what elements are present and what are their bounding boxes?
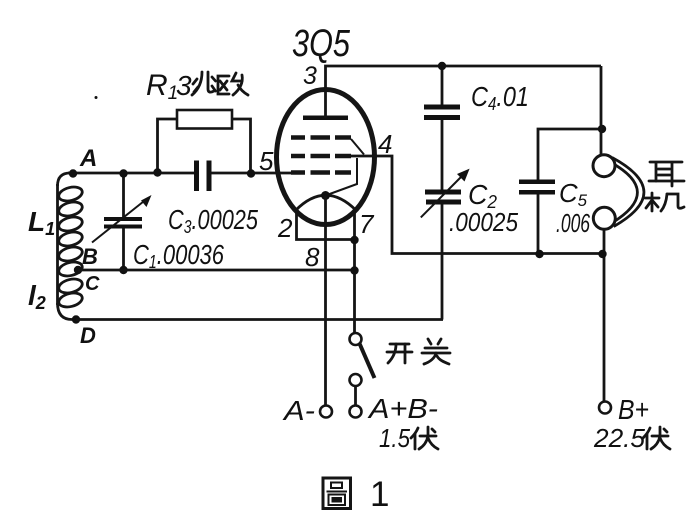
svg-text:A+B-: A+B- [367, 393, 438, 424]
label fu (伏) after 1.5 [411, 427, 438, 449]
speck [95, 96, 98, 99]
junction R1 right / pin5 node [247, 169, 255, 177]
node B [74, 244, 98, 274]
svg-text:1: 1 [370, 475, 389, 514]
svg-text:3: 3 [303, 62, 317, 90]
switch (开关) [350, 333, 375, 418]
earphone top cup [593, 155, 615, 177]
svg-text:4: 4 [378, 129, 392, 159]
label kai (开) [387, 344, 412, 363]
svg-text:B: B [82, 244, 98, 269]
svg-text:D: D [80, 323, 96, 348]
svg-text:22.5: 22.5 [593, 423, 646, 453]
filament arc [296, 195, 357, 210]
label erji (耳机) [649, 162, 684, 186]
node C [85, 273, 100, 295]
svg-text:C3.00025: C3.00025 [168, 204, 258, 237]
svg-text:C4.01: C4.01 [471, 81, 529, 114]
capacitor C2 (variable) [421, 169, 470, 320]
coil L2 [57, 277, 83, 320]
svg-text:A: A [79, 145, 97, 172]
wire C3 to pin5 [211, 172, 293, 175]
coil L1 [57, 184, 83, 305]
wire D to C2 bottom column [76, 318, 443, 321]
terminal A- [282, 395, 332, 426]
svg-text:8: 8 [305, 242, 320, 272]
junction pins 2-7 [350, 236, 358, 244]
filament center junction [321, 191, 330, 200]
label fu (伏) after 22.5 [643, 427, 670, 449]
pin 7 wire (down to switch) [353, 211, 356, 334]
earphone bottom cup [593, 207, 615, 229]
node D [72, 315, 96, 348]
junction B wire / pin7 [350, 266, 358, 274]
grid bracket to pin 4 [351, 139, 364, 155]
svg-text:B+: B+ [618, 394, 649, 425]
pin 8 wire (filament tap to A-) [324, 196, 327, 406]
earphone band arcs [611, 158, 644, 227]
terminal B+ 22.5V [593, 394, 649, 453]
wire A to grid (top main horizontal, left of C3) [58, 173, 195, 186]
label guan (关) [422, 339, 450, 364]
pin 2 wire [297, 212, 355, 240]
svg-text:C1.00036: C1.00036 [133, 239, 224, 272]
junction C5 top / right rail [598, 125, 606, 133]
junction C1 top [119, 169, 127, 177]
junction C5 bottom / rail [535, 250, 543, 258]
wire B to pin7 column [78, 269, 355, 272]
svg-text:.006: .006 [556, 208, 590, 238]
capacitor C5 [519, 129, 602, 254]
right rail top segment [600, 66, 603, 155]
svg-text:C: C [85, 273, 100, 295]
grid row 1 [291, 135, 351, 140]
svg-text:7: 7 [359, 209, 375, 239]
beam plate link to filament [326, 158, 358, 196]
capacitor C3 [194, 161, 212, 192]
junction bottom rail / earphone [598, 250, 606, 258]
svg-text:1.5: 1.5 [379, 423, 410, 453]
svg-text:2: 2 [277, 213, 293, 243]
svg-text:.00025: .00025 [449, 207, 518, 237]
grid row 2 [291, 154, 351, 159]
capacitor C1 (variable) [92, 173, 152, 270]
label zhao (兆) [192, 72, 216, 95]
right rail lower segment to B+ [603, 230, 606, 402]
junction R1 left [153, 168, 161, 176]
tube 3Q5 envelope U1 [277, 90, 375, 225]
svg-text:A-: A- [282, 395, 315, 426]
svg-text:3Q5: 3Q5 [292, 23, 351, 65]
capacitor C4 [424, 66, 460, 190]
pin 4 wire (to bottom rail) [335, 156, 603, 254]
plate bar [303, 116, 348, 121]
caption tu (圖) [323, 478, 351, 509]
svg-text:5: 5 [259, 146, 274, 176]
grid row 3 [291, 170, 351, 175]
terminal A+B- 1.5V [367, 393, 438, 453]
label ou (欧) [218, 73, 248, 95]
junction top rail / C4 [438, 62, 446, 70]
junction C1 bottom [119, 266, 127, 274]
pin 3 wire (plate to top rail) [326, 66, 602, 118]
node A [69, 145, 98, 178]
svg-text:3: 3 [176, 70, 192, 101]
resistor R1 [158, 110, 251, 173]
